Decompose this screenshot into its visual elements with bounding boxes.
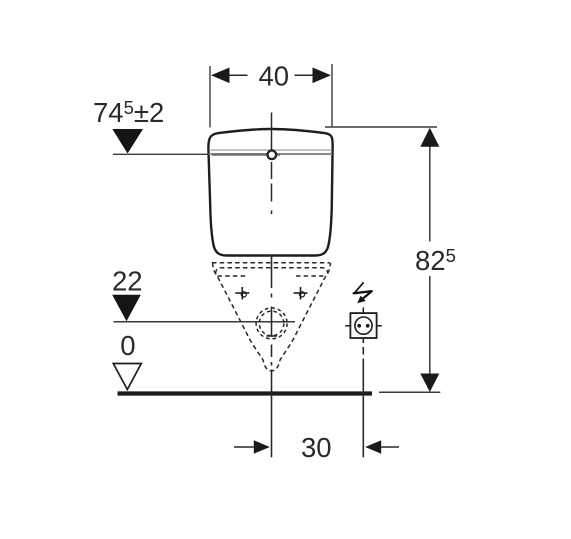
level line 22 [114, 321, 296, 323]
dim 82.5 up arrow [420, 128, 439, 147]
lightning bolt (electrical connection) [354, 283, 372, 299]
dim 30 right arrow [365, 440, 381, 453]
centerline tick above lid [271, 113, 273, 152]
outlet dashed circle outer [256, 308, 287, 339]
level marker triangle 0 (open) [113, 364, 141, 390]
screw marker cross left [235, 287, 249, 300]
level marker triangle 74.5 (filled) [112, 129, 143, 154]
svg-text:0: 0 [120, 330, 135, 361]
mounting plate top dashed line [212, 262, 330, 264]
cistern lid seam lower line [209, 153, 332, 155]
top reference line to 82.5 dimension [325, 126, 437, 128]
mounting plate funnel dashed outline [213, 263, 331, 371]
dim 40 left extension line [209, 66, 211, 128]
svg-text:22: 22 [112, 266, 143, 297]
floor reference short line right [379, 391, 440, 393]
svg-text:40: 40 [259, 60, 290, 91]
cistern tank body [208, 129, 332, 256]
screw marker cross right [294, 287, 308, 300]
flush knob on lid [268, 151, 277, 160]
floor line (thick) [118, 391, 373, 395]
mounting plate inner dashed line [216, 268, 328, 274]
level line 74.5 [113, 153, 209, 155]
dim 82.5 vertical line lower part [429, 276, 431, 375]
level marker triangle 22 (filled) [112, 295, 141, 322]
dim 30 left arrow [234, 446, 254, 448]
socket drop line to floor [362, 338, 364, 457]
cistern lid seam upper line [209, 149, 332, 151]
dim 82.5 vertical line upper part [429, 129, 431, 242]
outlet dashed circle inner [259, 311, 284, 336]
centerline dash-dot inside cistern [271, 162, 273, 214]
centerline below cistern [267, 255, 278, 458]
dim 40 right extension line [331, 64, 333, 127]
svg-text:30: 30 [301, 432, 332, 463]
dim 40 left arrow [211, 68, 230, 84]
mounting plate flange dashed segment right [296, 275, 324, 277]
mounting plate flange dashed segment left [218, 275, 248, 277]
power socket symbol [345, 308, 382, 339]
dim 40 right arrow [313, 68, 332, 84]
dim 82.5 down arrow [420, 374, 439, 393]
